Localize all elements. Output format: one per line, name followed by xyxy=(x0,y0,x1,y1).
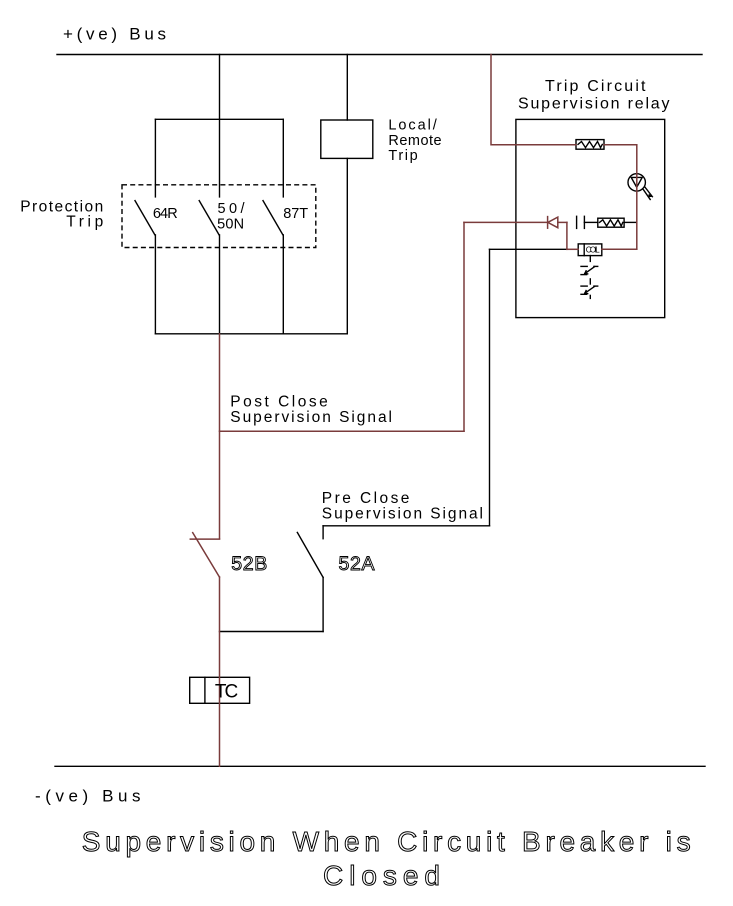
svg-text:50N: 50N xyxy=(217,217,244,233)
svg-text:Supervision When Circuit Break: Supervision When Circuit Breaker is xyxy=(82,826,691,857)
svg-text:52B: 52B xyxy=(231,553,267,575)
svg-text:52A: 52A xyxy=(339,553,375,575)
svg-text:Supervision relay: Supervision relay xyxy=(518,95,670,112)
svg-text:TC: TC xyxy=(215,682,238,703)
svg-text:50/: 50/ xyxy=(218,201,246,217)
svg-text:COIL: COIL xyxy=(586,246,601,255)
svg-text:Post Close: Post Close xyxy=(230,394,327,411)
svg-text:-(ve) Bus: -(ve) Bus xyxy=(35,786,141,805)
svg-text:Remote: Remote xyxy=(388,133,441,149)
svg-text:Supervision Signal: Supervision Signal xyxy=(230,409,392,426)
svg-text:Local/: Local/ xyxy=(388,118,437,134)
svg-text:Pre Close: Pre Close xyxy=(322,490,410,507)
svg-text:Trip: Trip xyxy=(388,148,417,164)
svg-text:+(ve) Bus: +(ve) Bus xyxy=(63,24,166,43)
svg-text:Supervision Signal: Supervision Signal xyxy=(322,506,483,523)
svg-text:Trip Circuit: Trip Circuit xyxy=(545,78,646,95)
svg-text:87T: 87T xyxy=(283,206,308,222)
svg-text:64R: 64R xyxy=(153,206,178,222)
